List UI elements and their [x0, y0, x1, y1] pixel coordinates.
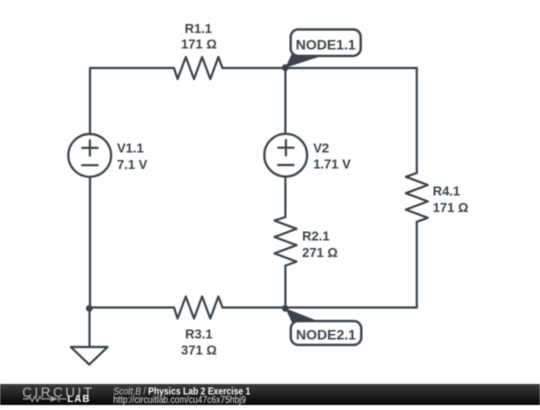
- V1.1 plus sign: [82, 140, 97, 155]
- svg-text:R1.1: R1.1: [185, 21, 212, 36]
- resistor R4.1 zigzag: [406, 173, 428, 222]
- node NODE2.1 junction dot: [282, 305, 289, 312]
- ground symbol triangle: [71, 347, 108, 365]
- svg-text:LAB: LAB: [67, 394, 90, 405]
- voltage source V1.1 circle: [68, 134, 111, 177]
- voltage source V2 circle: [264, 134, 307, 177]
- junction dot bottom-left: [86, 305, 93, 312]
- svg-text:R2.1: R2.1: [302, 228, 329, 243]
- svg-text:371 Ω: 371 Ω: [181, 343, 217, 358]
- wire ground stem: [88, 308, 90, 348]
- svg-text:171 Ω: 171 Ω: [181, 37, 217, 52]
- wire top-right segment: [223, 67, 417, 69]
- V1.1 minus sign: [82, 164, 97, 166]
- wire middle mid segment: [284, 177, 286, 217]
- svg-text:1.71 V: 1.71 V: [313, 157, 351, 172]
- svg-text:171 Ω: 171 Ω: [433, 200, 469, 215]
- resistor R1.1 zigzag: [174, 57, 223, 79]
- wire bottom-left segment: [90, 306, 174, 308]
- wire left vertical upper: [89, 68, 91, 134]
- resistor R2.1 zigzag: [275, 217, 297, 266]
- resistor R3.1 zigzag: [174, 297, 223, 319]
- svg-text:http://circuitlab.com/cu47c6x7: http://circuitlab.com/cu47c6x75hbj9: [113, 394, 246, 405]
- node NODE1.1 tag box: [291, 29, 361, 56]
- svg-text:271 Ω: 271 Ω: [302, 245, 338, 260]
- svg-text:V1.1: V1.1: [117, 141, 144, 156]
- wire middle lower segment: [284, 266, 286, 308]
- node NODE2.1 pointer wedge: [285, 308, 319, 322]
- V2 plus sign: [278, 140, 293, 155]
- node NODE2.1 tag box: [291, 321, 362, 345]
- node NODE1.1 junction dot: [282, 64, 289, 71]
- svg-text:NODE2.1: NODE2.1: [296, 326, 356, 342]
- footer bar: [0, 384, 540, 406]
- wire bottom-right segment: [223, 306, 417, 308]
- svg-text:V2: V2: [313, 140, 329, 155]
- wire right vertical upper: [416, 68, 418, 173]
- svg-text:7.1 V: 7.1 V: [117, 157, 148, 172]
- svg-text:R4.1: R4.1: [433, 184, 460, 199]
- svg-text:R3.1: R3.1: [185, 327, 212, 342]
- wire left vertical lower: [89, 177, 91, 308]
- node NODE1.1 pointer wedge: [285, 55, 322, 68]
- svg-text:NODE1.1: NODE1.1: [296, 36, 356, 52]
- logo resistor-diode glyph: [23, 395, 67, 401]
- V2 minus sign: [278, 164, 293, 166]
- wire middle vertical upper: [284, 68, 286, 134]
- wire right vertical lower: [416, 222, 418, 308]
- wire top-left segment: [90, 67, 174, 69]
